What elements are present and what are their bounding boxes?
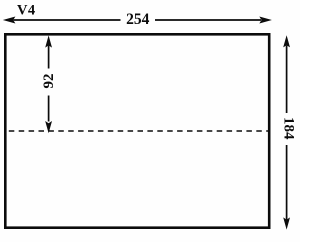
svg-text:V4: V4 [17,2,36,18]
svg-text:92: 92 [41,74,57,89]
svg-text:254: 254 [126,11,150,28]
svg-text:184: 184 [281,117,297,140]
